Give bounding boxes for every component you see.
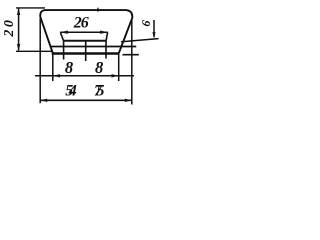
svg-text:75: 75 <box>94 83 105 100</box>
dim 20 bottom extension line <box>16 50 52 52</box>
dim 75 line <box>40 99 132 101</box>
arrowhead 20 top <box>17 8 20 15</box>
svg-text:6: 6 <box>138 19 153 27</box>
center tick on top edge <box>97 8 99 12</box>
svg-text:20: 20 <box>2 20 17 38</box>
svg-text:26: 26 <box>73 14 89 31</box>
slot top line <box>64 40 107 42</box>
bottom edge of part <box>52 52 120 55</box>
dim 20 top extension line <box>16 7 45 9</box>
interior mid line with right extension <box>51 46 137 48</box>
arrowhead 75 right (tip at right ext, body inward) <box>125 99 132 102</box>
dimension line 26 <box>60 31 108 33</box>
arrowhead 26 left <box>60 31 68 34</box>
arrowhead 20 bottom <box>17 44 20 51</box>
arrowhead 26 right <box>100 31 108 34</box>
dim 20 line vertical <box>18 9 20 51</box>
slot center divider x=86 <box>85 41 87 61</box>
svg-text:8: 8 <box>65 58 73 77</box>
slot right wall / 26-dim extension x=106 <box>106 32 108 58</box>
bottom edge extension segment right <box>123 54 139 56</box>
dim 6 line vertical with down arrow <box>153 20 155 37</box>
arrowhead 54 left (tip at left ext, body inward) <box>53 74 60 77</box>
extension line x=53 (54-dim left) <box>52 55 54 82</box>
svg-text:54: 54 <box>65 82 77 99</box>
slot-top extension line to 6-dim (tilted) <box>121 39 159 42</box>
slot left wall / 26-dim extension x=64 <box>60 32 63 59</box>
svg-text:8: 8 <box>95 58 103 77</box>
arrowhead 54 right (tip at right ext, body inward) <box>112 74 119 77</box>
dim 54 line <box>35 75 134 77</box>
extension line x=132 (75-dim right) <box>131 20 133 105</box>
extension line x=40 (75-dim left) <box>39 19 41 104</box>
extension line x=119 (54-dim right) <box>118 55 120 82</box>
arrowhead 6 down <box>152 32 155 39</box>
arrowhead 75 left (tip at left ext, body inward) <box>40 99 47 102</box>
part outline (trapezoidal body, rounded top corners) <box>40 10 132 53</box>
